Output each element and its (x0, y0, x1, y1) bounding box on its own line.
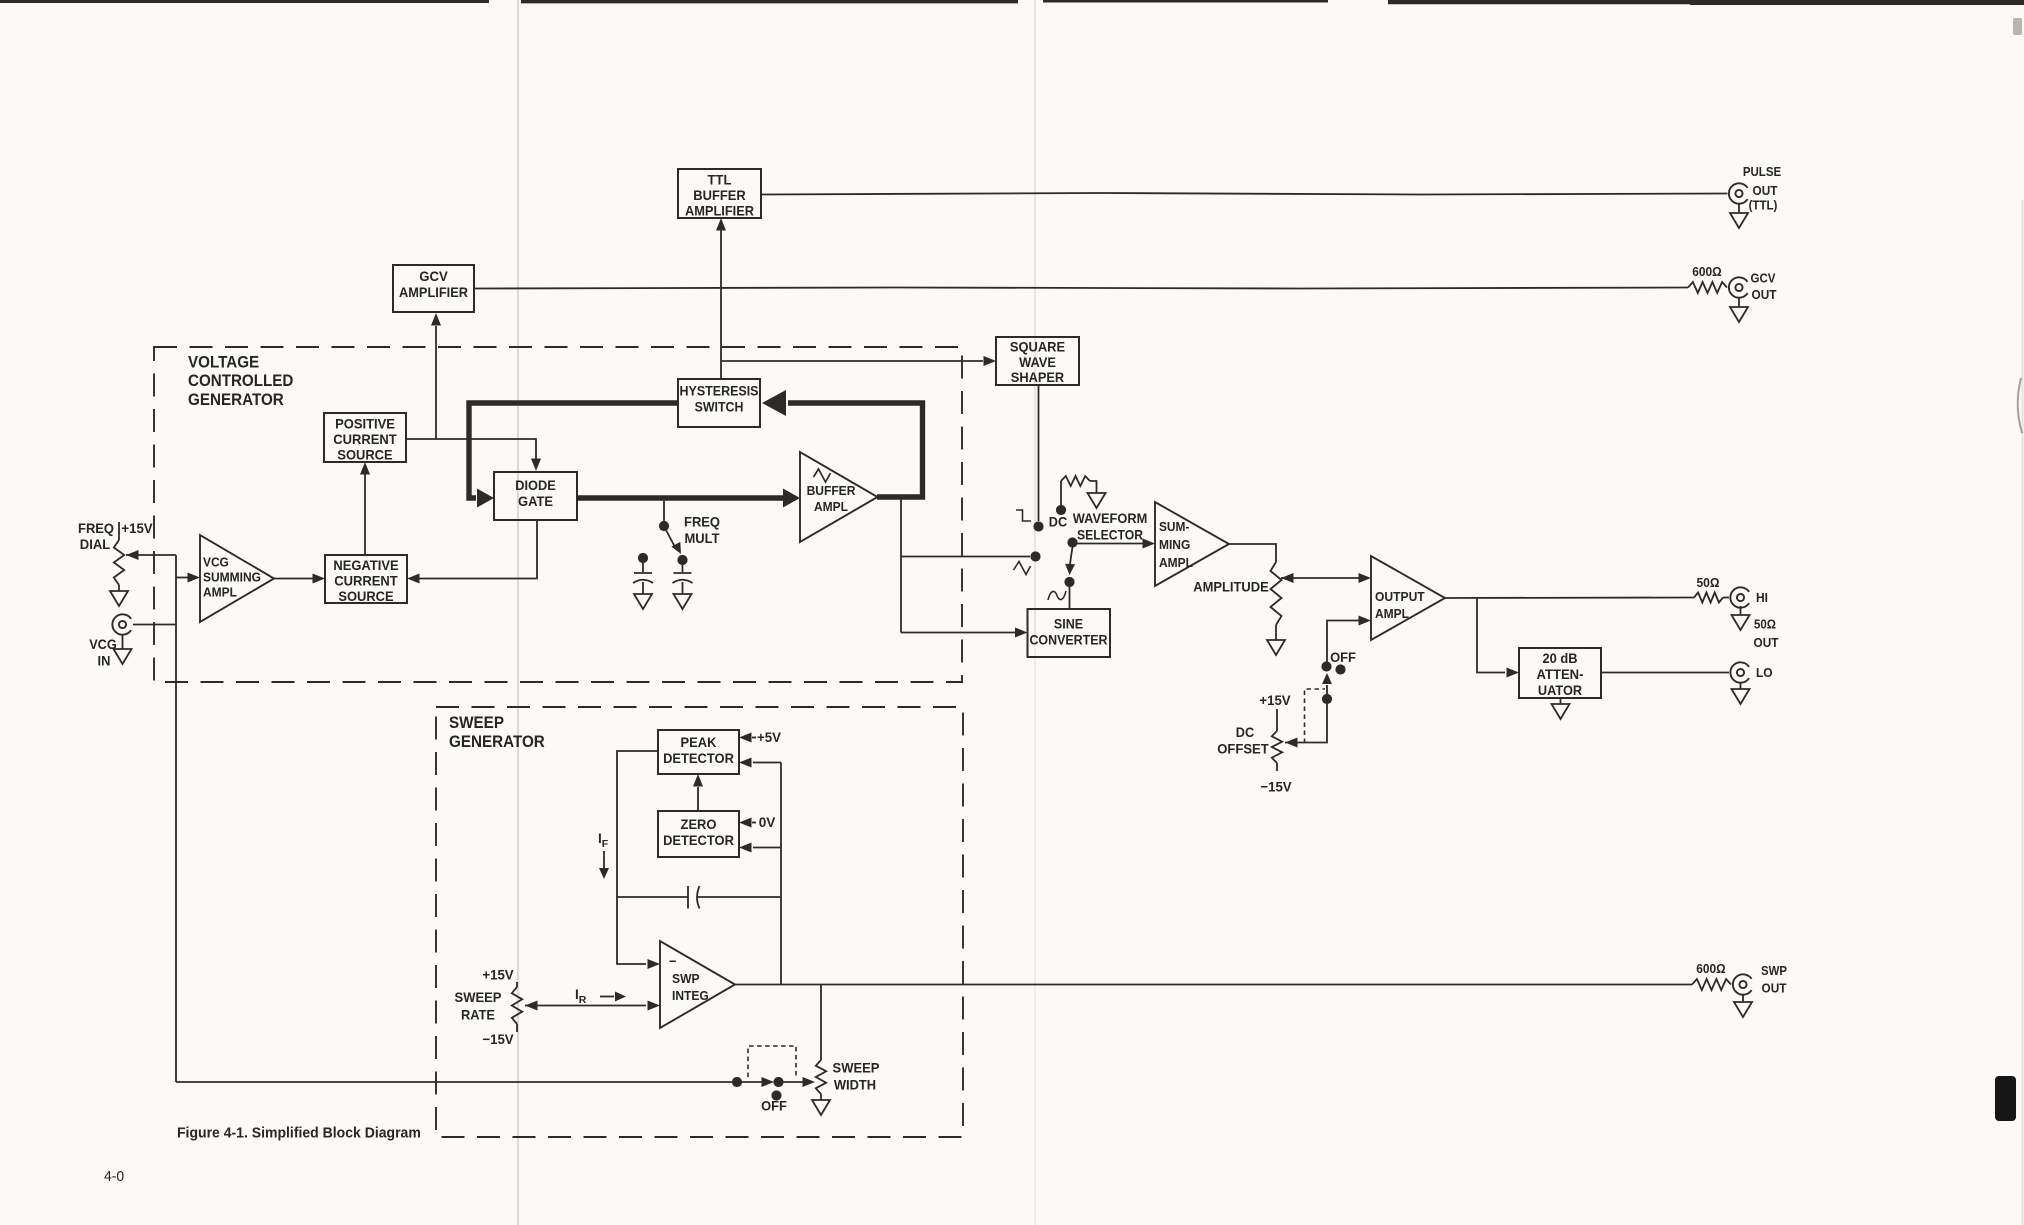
wire: VCG bus to sweep width switch (176, 1081, 732, 1083)
svg-text:(TTL): (TTL) (1749, 199, 1778, 213)
svg-text:POSITIVE: POSITIVE (335, 416, 395, 432)
linkage: DC offset switch (dashed) (1305, 689, 1326, 743)
svg-text:HYSTERESIS: HYSTERESIS (680, 384, 759, 399)
potentiometer: SWEEP RATE (512, 982, 522, 1032)
wire: TTL buffer amplifier output to PULSE OUT jack (761, 193, 1728, 195)
label: SWEEP RATE (455, 989, 502, 1023)
node: selector DC contact (1056, 505, 1066, 515)
thick wire: diode gate to buffer ampl (577, 489, 800, 508)
svg-text:−15V: −15V (1260, 779, 1292, 795)
wire: GCV amplifier output to 600 ohm resistor (474, 288, 1688, 289)
waveform glyph: triangle wave contact (1014, 562, 1031, 575)
label: 50 ohm (1697, 575, 1720, 590)
label: GCV OUT (1751, 272, 1777, 303)
wire: zero detector to peak detector (693, 774, 703, 811)
label: FREQ MULT (684, 514, 720, 547)
enclosure: sweep generator (dashed box) (436, 707, 963, 1137)
wire: selector sine contact to sine converter (1069, 586, 1071, 609)
label: LO (1756, 665, 1773, 680)
wire: sweep width feed (820, 985, 822, 1061)
label: PULSE OUT (TTL) (1743, 165, 1781, 213)
wire: hysteresis switch to TTL buffer amplifier (716, 218, 726, 379)
svg-text:LO: LO (1756, 665, 1773, 680)
svg-text:CURRENT: CURRENT (334, 572, 398, 588)
wire: selector common to summing ampl (1077, 539, 1155, 549)
svg-text:ZERO: ZERO (681, 816, 717, 832)
label: HI (1756, 590, 1768, 605)
connector: VCG IN jack (112, 614, 176, 634)
resistor: DC reference to ground (1061, 476, 1097, 505)
svg-text:20 dB: 20 dB (1543, 650, 1578, 666)
wire: bus to VCG summing ampl input (176, 573, 200, 583)
switch: sweep width on/off (732, 1077, 815, 1087)
wire: DC offset wiper to switch (1285, 704, 1327, 748)
svg-text:OUT: OUT (1753, 184, 1778, 198)
resistor: 50 ohm output (1694, 593, 1723, 603)
svg-text:GENERATOR: GENERATOR (188, 391, 284, 409)
ground: freq mult C1 (634, 594, 652, 609)
label: DC (1049, 514, 1067, 530)
svg-text:+5V: +5V (757, 729, 782, 745)
op-amp: buffer ampl (800, 452, 878, 542)
label: SWEEP WIDTH (833, 1060, 880, 1093)
thick wire: buffer ampl output to hysteresis switch (762, 390, 923, 497)
svg-text:AMPLIFIER: AMPLIFIER (399, 284, 468, 300)
svg-text:CONTROLLED: CONTROLLED (188, 372, 293, 390)
label: IR current (575, 987, 587, 1006)
svg-text:VOLTAGE: VOLTAGE (188, 353, 259, 371)
waveform glyph: square wave contact (1016, 510, 1031, 521)
scan artifact: black ink blob right edge (1995, 1076, 2016, 1121)
label: FREQ DIAL (78, 520, 114, 552)
resistor: 600 ohm GCV output (1688, 282, 1727, 293)
svg-text:SWEEP: SWEEP (455, 989, 502, 1005)
svg-text:50Ω: 50Ω (1697, 575, 1720, 590)
wire: buffer output down-feed (901, 499, 1030, 638)
wire: output ampl to HI jack (1445, 597, 1694, 600)
label: -15V (sweep rate) (482, 1031, 514, 1047)
label: IF current (598, 831, 609, 850)
ground: amplitude pot (1267, 640, 1285, 655)
potentiometer: FREQ DIAL (114, 522, 176, 591)
label: 0V (759, 814, 776, 830)
svg-text:600Ω: 600Ω (1696, 961, 1725, 976)
svg-text:IF: IF (598, 831, 609, 850)
svg-text:MING: MING (1159, 537, 1190, 552)
op-amp: output ampl (1371, 556, 1445, 640)
waveform glyph: sine wave contact (1048, 591, 1066, 600)
svg-text:GATE: GATE (518, 493, 553, 509)
svg-text:SINE: SINE (1054, 617, 1083, 632)
svg-text:SQUARE: SQUARE (1010, 339, 1065, 355)
svg-text:AMPLITUDE: AMPLITUDE (1193, 579, 1268, 595)
svg-text:ATTEN-: ATTEN- (1537, 666, 1584, 682)
svg-text:SWEEP: SWEEP (833, 1060, 880, 1076)
svg-text:IN: IN (98, 653, 111, 669)
wire: integrator feedback left branch (617, 751, 660, 969)
label: VOLTAGE CONTROLLED GENERATOR (188, 353, 293, 408)
arrow: IF current direction (599, 851, 609, 879)
potentiometer: SWEEP WIDTH (816, 1060, 826, 1100)
potentiometer: AMPLITUDE (1271, 562, 1282, 640)
svg-text:RATE: RATE (461, 1007, 495, 1023)
svg-text:50Ω: 50Ω (1754, 618, 1776, 632)
ground: PULSE OUT jack (1730, 204, 1748, 228)
block: negative current source (325, 555, 407, 604)
svg-text:BUFFER: BUFFER (807, 483, 856, 498)
svg-text:CONVERTER: CONVERTER (1029, 633, 1107, 648)
label: 600 ohm (GCV) (1692, 264, 1721, 279)
svg-text:UATOR: UATOR (1538, 682, 1582, 698)
svg-text:OFF: OFF (1330, 649, 1356, 665)
label: 50 ohm OUT (1754, 618, 1779, 651)
label: WAVEFORM SELECTOR (1073, 510, 1148, 543)
capacitor: sweep integrator feedback (617, 886, 781, 909)
svg-text:SUMMING: SUMMING (203, 569, 261, 584)
wire: integrator feedback right bus (780, 763, 782, 985)
svg-text:+15V: +15V (482, 967, 514, 983)
node: selector square-wave contact (1033, 521, 1043, 531)
wire: VCG summing ampl output to negative current source (274, 574, 325, 584)
block: positive current source (324, 413, 406, 462)
svg-text:AMPL: AMPL (1375, 606, 1409, 621)
ground: SWP OUT jack (1734, 994, 1752, 1017)
op-amp: summing ampl (1155, 502, 1229, 586)
capacitor: freq mult C2 (673, 564, 693, 594)
block: diode gate (494, 472, 577, 520)
svg-text:OUTPUT: OUTPUT (1375, 589, 1425, 604)
label: SWEEP GENERATOR (449, 714, 545, 751)
ground: freq mult C2 (674, 594, 692, 609)
svg-text:TTL: TTL (708, 172, 732, 188)
block: square wave shaper (996, 337, 1079, 385)
ground: sweep width pot (812, 1100, 830, 1115)
wire: summing ampl output to amplitude pot (1229, 544, 1276, 562)
svg-text:PEAK: PEAK (681, 734, 717, 750)
svg-text:Figure 4-1. Simplified Block: Figure 4-1. Simplified Block Diagram (177, 1125, 421, 1142)
svg-text:GENERATOR: GENERATOR (449, 733, 545, 751)
connector: SWP OUT jack (1733, 974, 1752, 994)
wire: output ampl to attenuator (1477, 598, 1519, 678)
svg-text:4-0: 4-0 (104, 1168, 124, 1185)
svg-text:INTEG: INTEG (672, 988, 709, 1003)
svg-text:DETECTOR: DETECTOR (663, 832, 734, 848)
wire: square wave shaper feed (721, 356, 996, 366)
svg-text:DIODE: DIODE (515, 477, 556, 493)
block: peak detector (658, 730, 739, 774)
svg-text:SWITCH: SWITCH (695, 400, 744, 415)
capacitor: freq mult C1 (633, 562, 653, 594)
svg-text:SHAPER: SHAPER (1011, 369, 1064, 385)
ground: VCG IN jack (114, 635, 132, 664)
svg-text:MULT: MULT (685, 530, 720, 546)
svg-text:AMPL: AMPL (203, 584, 237, 599)
svg-text:SWP: SWP (672, 971, 700, 986)
node: freq mult alternate contact (638, 553, 648, 563)
label: -15V (dc offset) (1260, 779, 1292, 795)
svg-text:CURRENT: CURRENT (333, 431, 397, 447)
label: AMPLITUDE (1193, 579, 1268, 595)
node: sweep width OFF contact (771, 1090, 781, 1100)
connector: HI jack (1730, 587, 1749, 607)
scan artifact: right edge marks (2013, 18, 2023, 1225)
svg-text:DC: DC (1049, 514, 1067, 530)
svg-text:OFF: OFF (761, 1098, 787, 1114)
ground: freq dial pot (110, 591, 128, 606)
connector: LO jack (1730, 662, 1749, 682)
wire: positive current source to diode gate (406, 439, 541, 471)
svg-text:−15V: −15V (482, 1031, 514, 1047)
label: SWP OUT (1761, 964, 1787, 996)
thick wire: hysteresis switch output to diode gate (469, 403, 678, 508)
label: +15V (freq dial) (121, 520, 153, 536)
block: TTL buffer amplifier (678, 169, 761, 218)
block: 20 dB attenuator (1519, 648, 1601, 698)
svg-text:SELECTOR: SELECTOR (1077, 527, 1143, 543)
svg-text:+15V: +15V (1259, 692, 1291, 708)
wire: negative current source to positive current source (360, 462, 370, 555)
arrow: IR current direction (600, 992, 626, 1002)
label: OFF (dc offset switch) (1330, 649, 1356, 665)
scan artifact: black strip along top edge (0, 1, 2024, 2)
label: VCG IN (89, 636, 117, 669)
wire: 50 ohm resistor to HI jack (1723, 597, 1729, 599)
switch: DC offset on/off (1321, 661, 1345, 704)
connector: GCV OUT jack (1729, 277, 1748, 297)
block: zero detector (658, 811, 739, 857)
caption: Figure 4-1. Simplified Block Diagram (177, 1125, 421, 1142)
svg-text:GCV: GCV (419, 268, 448, 284)
svg-text:600Ω: 600Ω (1692, 264, 1721, 279)
svg-text:SOURCE: SOURCE (338, 588, 393, 604)
wire: sweep rate wiper to integrator (double arrow) (525, 1001, 660, 1011)
potentiometer: DC OFFSET (1272, 709, 1282, 771)
svg-text:DC: DC (1236, 724, 1254, 740)
node: freq mult selected contact (677, 555, 687, 565)
label: 600 ohm (SWP) (1696, 961, 1725, 976)
op-amp: sweep integrator (660, 941, 735, 1028)
svg-text:+15V: +15V (121, 520, 153, 536)
svg-text:AMPLIFIER: AMPLIFIER (685, 202, 754, 218)
ground: GCV OUT jack (1730, 298, 1748, 322)
scan artifact: paper fold line right (1034, 0, 1036, 1225)
svg-text:DIAL: DIAL (80, 536, 111, 552)
svg-text:OUT: OUT (1754, 636, 1779, 650)
ground: HI jack (50 ohm out) (1732, 606, 1750, 630)
wire: amplitude wiper to output ampl (double arrow) (1281, 573, 1371, 583)
node: VCG input bus vertical (175, 555, 177, 1082)
svg-text:IR: IR (575, 987, 587, 1006)
block: sine converter (1028, 609, 1111, 657)
svg-text:AMPL: AMPL (1159, 555, 1193, 570)
enclosure: voltage controlled generator (dashed box) (154, 347, 962, 682)
svg-text:NEGATIVE: NEGATIVE (333, 557, 398, 573)
svg-text:VCG: VCG (203, 554, 229, 569)
switch: freq mult (659, 500, 681, 554)
svg-text:SOURCE: SOURCE (337, 446, 392, 462)
svg-text:−: − (669, 953, 676, 969)
svg-text:HI: HI (1756, 590, 1768, 605)
svg-text:0V: 0V (759, 814, 776, 830)
label: +15V (dc offset) (1259, 692, 1291, 708)
wire: feedback bus into peak detector (739, 758, 781, 768)
svg-text:PULSE: PULSE (1743, 165, 1781, 179)
op-amp: VCG summing ampl (200, 535, 274, 622)
label: OFF (sweep width switch) (761, 1098, 787, 1114)
ground: DC reference resistor (1088, 493, 1106, 508)
label: +15V (sweep rate) (482, 967, 514, 983)
svg-text:AMPL: AMPL (814, 499, 848, 514)
switch wiper: waveform selector (1065, 547, 1075, 575)
svg-text:FREQ: FREQ (684, 514, 720, 530)
svg-text:BUFFER: BUFFER (693, 187, 745, 203)
svg-text:SWP: SWP (1761, 964, 1787, 978)
label: +5V (757, 729, 782, 745)
connector: PULSE OUT (TTL) jack (1729, 183, 1748, 203)
wire: GCV amplifier input from positive current source node (431, 313, 441, 439)
wire: feedback bus into zero detector (739, 843, 781, 853)
wire: +5V into peak detector (739, 733, 756, 743)
ground: attenuator (1552, 697, 1570, 719)
svg-text:SWEEP: SWEEP (449, 714, 504, 732)
ground: LO jack (1732, 682, 1750, 704)
node: selector common (wiper) (1067, 537, 1077, 547)
svg-text:DETECTOR: DETECTOR (663, 750, 734, 766)
block: hysteresis switch (678, 379, 760, 427)
label: page number 4-0 (104, 1168, 124, 1185)
wire: square wave shaper to selector contact (1038, 385, 1040, 521)
wire: diode gate to negative current source (feedback) (407, 520, 537, 584)
svg-text:WAVEFORM: WAVEFORM (1073, 510, 1148, 526)
scan artifact: paper fold line left (517, 0, 519, 1225)
wire: 0V into zero detector (739, 818, 756, 828)
svg-text:SUM-: SUM- (1159, 519, 1189, 534)
wire: sweep integrator output to SWP OUT (735, 984, 1692, 986)
svg-text:FREQ: FREQ (78, 520, 114, 536)
node: selector triangle-wave contact (1030, 551, 1040, 561)
block: GCV amplifier (393, 265, 474, 312)
svg-text:OUT: OUT (1762, 982, 1787, 996)
svg-text:GCV: GCV (1751, 272, 1777, 286)
svg-text:OUT: OUT (1752, 288, 1777, 302)
svg-text:WAVE: WAVE (1019, 354, 1056, 370)
svg-text:OFFSET: OFFSET (1217, 741, 1269, 757)
wire: attenuator to LO jack (1601, 672, 1729, 674)
label: DC OFFSET (1217, 724, 1269, 757)
svg-text:VCG: VCG (89, 636, 117, 652)
linkage: sweep width switch (dashed) (748, 1046, 796, 1077)
wire: DC offset switch to output ampl (1327, 616, 1371, 663)
resistor: 600 ohm SWP output (1692, 979, 1731, 990)
svg-text:WIDTH: WIDTH (834, 1077, 876, 1093)
node: selector sine contact (1064, 577, 1074, 587)
